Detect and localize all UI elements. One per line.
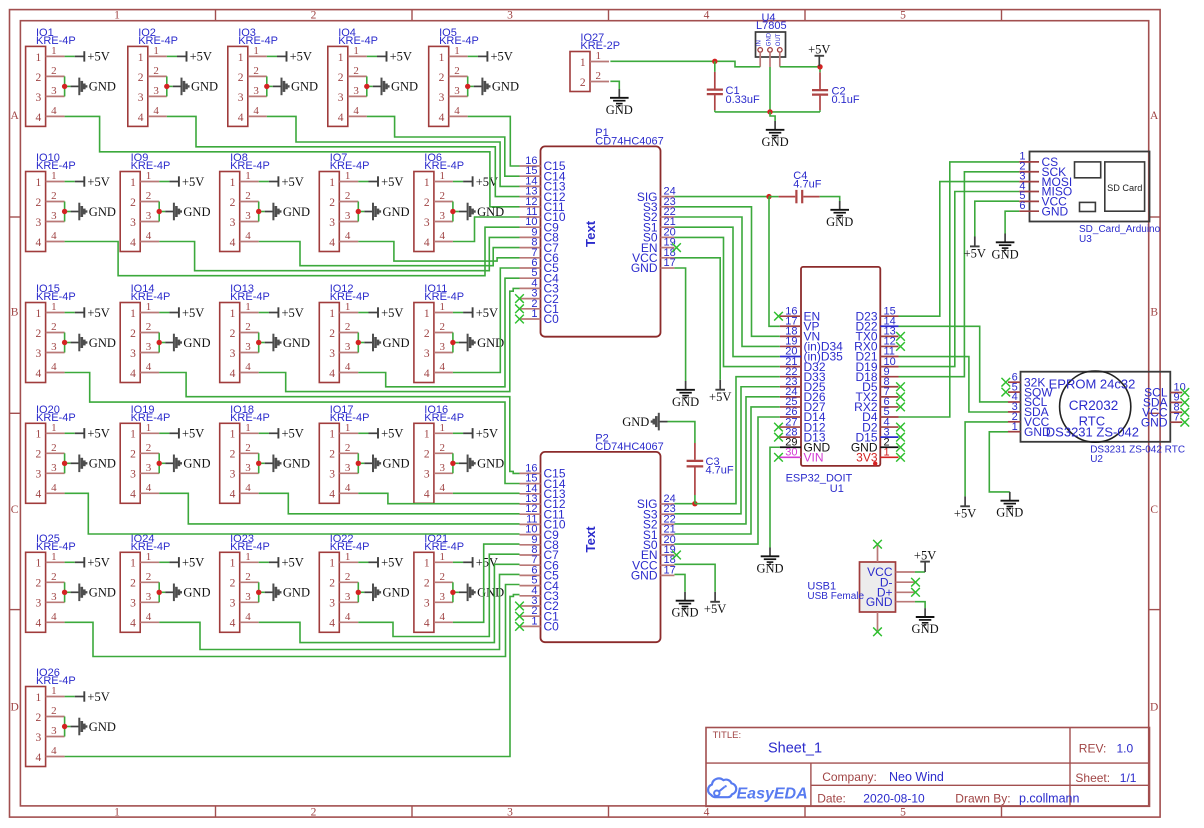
svg-text:4: 4 <box>36 368 42 380</box>
multiplexer P1 CD74HC4067 <box>520 127 676 337</box>
P1 pin 21 S1 <box>661 226 675 228</box>
USB1 shield pin top <box>877 546 879 563</box>
P2 pin 1 C0 <box>520 625 541 627</box>
IO4 pin 3 <box>348 95 367 97</box>
P2 pin 10 C9 <box>520 534 541 536</box>
svg-text:GND: GND <box>912 622 939 636</box>
svg-text:CR2032: CR2032 <box>1069 398 1119 413</box>
svg-text:GND: GND <box>183 586 210 600</box>
svg-text:EasyEDA: EasyEDA <box>737 786 808 803</box>
svg-text:+5V: +5V <box>87 556 109 570</box>
svg-text:17: 17 <box>664 564 676 576</box>
connector IO25 KRE-4P <box>26 533 76 632</box>
svg-text:3: 3 <box>36 732 42 744</box>
svg-text:4: 4 <box>424 237 430 249</box>
wire IO21 pin4 to P2 C8 <box>453 544 520 622</box>
svg-text:2: 2 <box>245 321 251 333</box>
svg-text:TITLE:: TITLE: <box>713 730 742 741</box>
P2 pin 16 C15 <box>520 472 541 474</box>
svg-text:1: 1 <box>245 551 251 563</box>
wire U1 D19 to U3 MISO <box>899 192 1020 367</box>
svg-text:3: 3 <box>338 92 344 104</box>
U1 pin 23 D25 <box>780 386 801 388</box>
P2 pin 20 S0 <box>661 544 675 546</box>
svg-text:+5V: +5V <box>381 427 403 441</box>
svg-text:GND: GND <box>672 395 699 409</box>
IO20 pin 4 <box>46 492 65 494</box>
svg-text:GND: GND <box>631 261 658 275</box>
svg-text:2: 2 <box>36 328 42 340</box>
U1 pin 5 D4 <box>880 416 898 418</box>
svg-text:3: 3 <box>439 341 445 353</box>
svg-text:GND: GND <box>1042 204 1069 218</box>
wire IO27 pin1 to C1/U4 IN <box>610 60 714 62</box>
svg-text:1: 1 <box>238 52 244 64</box>
U1 no-connect X pin 2 <box>896 443 905 452</box>
svg-text:2: 2 <box>329 328 335 340</box>
svg-text:GND: GND <box>383 586 410 600</box>
connector IO12 KRE-4P <box>319 283 369 382</box>
IO17 pin 3 <box>339 472 358 474</box>
wire P1 GND <box>674 268 685 381</box>
svg-text:2: 2 <box>51 705 57 717</box>
svg-text:1: 1 <box>51 551 57 563</box>
IO11 pin 4 <box>434 372 453 374</box>
P2 no-connect X pin 1 <box>515 622 524 631</box>
svg-text:2: 2 <box>345 190 351 202</box>
wire USB GND <box>915 602 925 609</box>
P2 pin 12 C11 <box>520 513 541 515</box>
P1 pin 23 S3 <box>661 206 675 208</box>
IO9 pin 4 <box>140 241 159 243</box>
svg-text:3: 3 <box>329 598 335 610</box>
svg-text:REV:: REV: <box>1079 742 1107 756</box>
connector IO5 KRE-4P <box>429 27 479 126</box>
svg-text:3: 3 <box>36 348 42 360</box>
U1 pin 3 D15 <box>880 436 898 438</box>
connector IO22 KRE-4P <box>319 533 369 632</box>
svg-text:1: 1 <box>36 308 42 320</box>
IO17 +5V flag on pin 1 <box>358 427 403 441</box>
IO13 GND net on pins 2-3 <box>256 333 310 353</box>
svg-text:4: 4 <box>146 611 152 623</box>
svg-text:1: 1 <box>146 422 152 434</box>
IO3 pin 3 <box>248 95 267 97</box>
svg-text:GND: GND <box>283 586 310 600</box>
IO19 +5V flag on pin 1 <box>159 427 204 441</box>
P2 pin 7 C6 <box>520 564 541 566</box>
P1 pin 2 C1 <box>520 308 541 310</box>
IO3 pin 4 <box>248 115 267 117</box>
IO1 GND net on pins 2-3 <box>62 76 116 96</box>
U1 pin 29 GND <box>780 446 801 448</box>
svg-text:B: B <box>11 307 19 319</box>
svg-text:2: 2 <box>439 190 445 202</box>
IO12 +5V flag on pin 1 <box>358 306 403 320</box>
U2 pin 5 SQW <box>1008 391 1021 393</box>
svg-text:4: 4 <box>345 611 351 623</box>
IO2 GND net on pins 2-3 <box>164 76 218 96</box>
IO19 pin 4 <box>140 492 159 494</box>
svg-text:2: 2 <box>230 328 236 340</box>
capacitor C2 0.1uF <box>812 67 860 112</box>
IO19 GND net on pins 2-3 <box>157 453 211 473</box>
svg-text:4: 4 <box>146 361 152 373</box>
svg-text:1: 1 <box>146 301 152 313</box>
IO1 pin 1 <box>46 55 65 57</box>
svg-text:4: 4 <box>704 10 710 22</box>
IO7 GND net on pins 2-3 <box>356 202 410 222</box>
svg-text:B: B <box>1150 307 1158 319</box>
IO25 pin 4 <box>46 621 65 623</box>
svg-text:3: 3 <box>153 85 159 97</box>
svg-text:1: 1 <box>338 52 344 64</box>
capacitor C4 4.7uF <box>769 170 840 204</box>
IO6 pin 3 <box>434 221 453 223</box>
svg-text:6: 6 <box>1019 200 1025 212</box>
IO26 GND net on pins 2-3 <box>62 717 116 737</box>
+5V flag under U3 <box>964 237 986 261</box>
connector IO4 KRE-4P <box>328 27 378 126</box>
IO11 pin 1 <box>434 312 453 314</box>
svg-text:+5V: +5V <box>954 506 976 520</box>
svg-text:4: 4 <box>36 489 42 501</box>
svg-text:2: 2 <box>596 70 602 82</box>
svg-text:+5V: +5V <box>709 390 731 404</box>
svg-text:2: 2 <box>36 712 42 724</box>
svg-text:+5V: +5V <box>381 175 403 189</box>
U1 pin 25 D27 <box>780 406 801 408</box>
P1 pin 8 C7 <box>520 247 541 249</box>
U1 pin 1 3V3 <box>880 456 898 458</box>
svg-text:1: 1 <box>146 551 152 563</box>
svg-text:VIN: VIN <box>804 451 824 465</box>
IO25 pin 1 <box>46 561 65 563</box>
svg-text:4: 4 <box>51 230 57 242</box>
svg-text:2: 2 <box>424 449 430 461</box>
connector IO27 KRE-2P <box>570 32 620 91</box>
svg-text:2: 2 <box>245 442 251 454</box>
IO4 GND net on pins 2-3 <box>364 76 418 96</box>
svg-text:4: 4 <box>51 482 57 494</box>
svg-text:GND: GND <box>183 336 210 350</box>
IO11 +5V flag on pin 1 <box>453 306 498 320</box>
svg-text:GND: GND <box>996 506 1023 520</box>
wire IO11 pin4 to P1 C5 <box>453 268 520 373</box>
U3 pin 3 MOSI <box>1019 181 1039 183</box>
svg-text:2: 2 <box>146 442 152 454</box>
connector IO19 KRE-4P <box>120 404 170 503</box>
svg-text:2: 2 <box>439 442 445 454</box>
wire IO18 pin4 to P2 C11 <box>259 493 520 514</box>
svg-text:3: 3 <box>253 85 259 97</box>
svg-text:GND: GND <box>183 457 210 471</box>
svg-text:1: 1 <box>345 551 351 563</box>
IO8 pin 3 <box>240 221 259 223</box>
connector IO13 KRE-4P <box>220 283 270 382</box>
P2 pin 8 C7 <box>520 554 541 556</box>
P2 pin 24 SIG <box>661 503 675 505</box>
USB1 no-connect X bottom <box>873 627 882 636</box>
IO24 pin 2 <box>140 581 159 583</box>
IO16 pin 2 <box>434 452 453 454</box>
svg-text:2: 2 <box>253 65 259 77</box>
P2 pin 14 C13 <box>520 493 541 495</box>
IO23 GND net on pins 2-3 <box>256 582 310 602</box>
ground at C4 <box>826 201 853 229</box>
+5V flag under U2 <box>954 496 976 520</box>
svg-text:+5V: +5V <box>964 247 986 261</box>
RTC module U2 DS3231 ZS-042 <box>1008 371 1186 465</box>
svg-text:2: 2 <box>51 321 57 333</box>
P1 pin 4 C3 <box>520 287 541 289</box>
IO2 pin 3 <box>148 95 167 97</box>
U1 pin 17 VP <box>780 325 801 327</box>
svg-text:GND: GND <box>826 215 853 229</box>
svg-text:2: 2 <box>345 442 351 454</box>
wire IO27 pin2 to GND <box>610 81 619 89</box>
svg-text:4: 4 <box>245 611 251 623</box>
P1 pin 7 C6 <box>520 257 541 259</box>
P1 pin 20 S0 <box>661 236 675 238</box>
svg-text:GND: GND <box>283 457 310 471</box>
svg-text:4: 4 <box>439 361 445 373</box>
svg-text:4: 4 <box>329 618 335 630</box>
U1 no-connect X pin 7 <box>896 392 905 401</box>
U2 no-connect X pin 5 <box>1001 388 1010 397</box>
svg-text:A: A <box>10 110 19 122</box>
P2 pin 2 C1 <box>520 615 541 617</box>
svg-text:+5V: +5V <box>182 556 204 570</box>
svg-text:4: 4 <box>253 105 259 117</box>
P1 no-connect X pin 3 <box>515 294 524 303</box>
svg-text:GND: GND <box>89 586 116 600</box>
connector IO3 KRE-4P <box>228 27 278 126</box>
svg-text:4: 4 <box>146 482 152 494</box>
svg-text:C: C <box>1150 504 1158 516</box>
wire U1 D18 to U3 SCK <box>899 172 1020 377</box>
svg-text:3: 3 <box>146 341 152 353</box>
svg-text:4: 4 <box>329 237 335 249</box>
svg-text:3: 3 <box>424 469 430 481</box>
svg-text:4: 4 <box>345 482 351 494</box>
IO25 GND net on pins 2-3 <box>62 582 116 602</box>
IO21 +5V flag on pin 1 <box>453 556 498 570</box>
IO5 pin 1 <box>449 55 468 57</box>
wire to GND symbol <box>770 112 775 121</box>
IO8 GND net on pins 2-3 <box>256 202 310 222</box>
wire IO25 pin4 to P2 C4 <box>65 585 520 657</box>
IO11 pin 2 <box>434 332 453 334</box>
svg-text:+5V: +5V <box>381 306 403 320</box>
svg-text:1: 1 <box>596 50 602 62</box>
svg-text:3: 3 <box>329 469 335 481</box>
USB1 shield pin bottom <box>877 612 879 631</box>
P1 pin 9 C8 <box>520 236 541 238</box>
svg-text:1: 1 <box>439 422 445 434</box>
P1 pin 6 C5 <box>520 267 541 269</box>
IO16 +5V flag on pin 1 <box>453 427 498 441</box>
svg-text:2: 2 <box>230 578 236 590</box>
svg-text:1/1: 1/1 <box>1120 771 1137 785</box>
IO20 +5V flag on pin 1 <box>65 427 110 441</box>
multiplexer P2 CD74HC4067 <box>520 432 676 642</box>
U1 no-connect X pin 6 <box>896 403 905 412</box>
wire IO10 pin4 to P1 C9 <box>65 227 520 276</box>
svg-text:3: 3 <box>439 210 445 222</box>
IO15 pin 3 <box>46 352 65 354</box>
U2 pin 6 32K <box>1008 381 1021 383</box>
svg-text:4: 4 <box>51 361 57 373</box>
wire IO4 pin4 to P1 C14 <box>367 116 520 176</box>
IO17 pin 2 <box>339 452 358 454</box>
svg-text:2: 2 <box>338 72 344 84</box>
svg-text:3: 3 <box>36 598 42 610</box>
wire U1 GND29 <box>770 447 780 547</box>
P1 pin 22 S2 <box>661 216 675 218</box>
IO21 pin 1 <box>434 561 453 563</box>
wire IO15 pin4 to P2 C14 <box>65 373 520 484</box>
P2 pin 21 S1 <box>661 534 675 536</box>
svg-text:+5V: +5V <box>87 175 109 189</box>
svg-text:1: 1 <box>230 429 236 441</box>
svg-text:3: 3 <box>146 462 152 474</box>
svg-text:1: 1 <box>114 10 120 22</box>
connector IO6 KRE-4P <box>414 152 464 251</box>
svg-text:2: 2 <box>51 190 57 202</box>
svg-text:L7805: L7805 <box>756 20 787 32</box>
svg-text:1: 1 <box>439 551 445 563</box>
wire IO5 pin4 to P1 C15 <box>468 116 520 166</box>
U1 no-connect X pin 8 <box>896 382 905 391</box>
U1 pin 18 VN <box>780 335 801 337</box>
svg-text:3: 3 <box>507 807 513 819</box>
svg-text:SD Card: SD Card <box>1107 183 1142 193</box>
svg-text:2: 2 <box>424 578 430 590</box>
svg-text:GND: GND <box>383 205 410 219</box>
U1 pin 12 RX0 <box>880 345 898 347</box>
USB1 pin VCC <box>896 571 915 573</box>
wire USB VCC <box>915 571 925 573</box>
svg-text:EPROM 24c32: EPROM 24c32 <box>1049 376 1136 391</box>
IO7 pin 2 <box>339 201 358 203</box>
U1 no-connect X pin 1 <box>896 453 905 462</box>
svg-text:3: 3 <box>36 469 42 481</box>
IO8 +5V flag on pin 1 <box>259 175 304 189</box>
U1 pin 19 (in)D34 <box>780 345 801 347</box>
svg-text:2: 2 <box>130 449 136 461</box>
P2 pin 9 C8 <box>520 544 541 546</box>
svg-text:+5V: +5V <box>282 556 304 570</box>
svg-text:2: 2 <box>146 190 152 202</box>
svg-text:3: 3 <box>51 341 57 353</box>
svg-text:4: 4 <box>146 230 152 242</box>
connector IO2 KRE-4P <box>128 27 178 126</box>
svg-text:2: 2 <box>345 571 351 583</box>
svg-text:3: 3 <box>245 462 251 474</box>
P1 pin 17 GND <box>661 267 675 269</box>
svg-text:4.7uF: 4.7uF <box>706 465 734 477</box>
P1 pin 14 C13 <box>520 185 541 187</box>
wire P2 GND <box>674 574 685 592</box>
ground under P2 <box>671 592 698 620</box>
P1 no-connect X pin 2 <box>515 304 524 313</box>
IO3 GND net on pins 2-3 <box>264 76 318 96</box>
U2 pin 9 SDA <box>1170 401 1182 403</box>
svg-text:4: 4 <box>338 112 344 124</box>
wire P2 VCC to +5V <box>674 564 715 592</box>
wire P2 S0 to U1 D14 <box>674 417 779 544</box>
svg-text:4: 4 <box>345 230 351 242</box>
svg-text:GND: GND <box>477 457 504 471</box>
svg-text:3: 3 <box>138 92 144 104</box>
ground under P1 <box>672 381 699 409</box>
svg-text:2: 2 <box>130 328 136 340</box>
svg-text:Sheet_1: Sheet_1 <box>768 741 822 757</box>
IO6 pin 2 <box>434 201 453 203</box>
+5V flag under P1 <box>709 380 731 404</box>
svg-text:1: 1 <box>424 308 430 320</box>
wire P1 VCC to +5V <box>674 258 720 380</box>
svg-text:1: 1 <box>531 308 537 320</box>
connector IO20 KRE-4P <box>26 404 76 503</box>
svg-text:4: 4 <box>424 618 430 630</box>
wire P1 S1 to U1 D35 <box>674 227 779 356</box>
P1 pin 5 C4 <box>520 277 541 279</box>
IO21 pin 4 <box>434 621 453 623</box>
USB1 pin D+ <box>896 591 915 593</box>
IO21 pin 3 <box>434 601 453 603</box>
IO16 pin 1 <box>434 432 453 434</box>
svg-text:1: 1 <box>439 170 445 182</box>
wire IO1 pin4 to P1 C11 <box>65 116 520 206</box>
svg-text:GND: GND <box>992 247 1019 261</box>
U2 pin 2 VCC <box>1008 421 1021 423</box>
wire IO9 pin4 to P1 C8 <box>159 237 519 270</box>
svg-text:GND: GND <box>89 80 116 94</box>
U1 pin 15 D23 <box>880 315 898 317</box>
svg-text:+5V: +5V <box>390 50 412 64</box>
svg-text:U3: U3 <box>1079 234 1092 245</box>
svg-text:+5V: +5V <box>491 50 513 64</box>
svg-text:+5V: +5V <box>87 50 109 64</box>
connector IO8 KRE-4P <box>220 152 270 251</box>
IO8 pin 2 <box>240 201 259 203</box>
svg-text:2: 2 <box>345 321 351 333</box>
IO13 pin 1 <box>240 312 259 314</box>
svg-text:Drawn By:: Drawn By: <box>955 792 1010 806</box>
svg-text:4: 4 <box>230 618 236 630</box>
wire IO17 pin4 to P2 C12 <box>358 493 519 503</box>
U1 pin 4 D2 <box>880 426 898 428</box>
svg-text:2: 2 <box>36 578 42 590</box>
svg-text:2: 2 <box>146 571 152 583</box>
svg-text:3: 3 <box>36 92 42 104</box>
svg-text:Company:: Company: <box>822 770 877 784</box>
P2 pin 15 C14 <box>520 483 541 485</box>
svg-text:2: 2 <box>439 321 445 333</box>
wire IO23 pin4 to P2 C6 <box>259 564 520 642</box>
svg-text:1: 1 <box>580 57 586 69</box>
svg-text:+5V: +5V <box>704 602 726 616</box>
svg-text:GND: GND <box>756 561 783 575</box>
svg-text:1: 1 <box>253 45 259 57</box>
svg-text:4: 4 <box>153 105 159 117</box>
svg-text:3: 3 <box>230 469 236 481</box>
junction P2 SIG / C3 <box>692 501 697 506</box>
wire junction to U4 IN <box>715 61 760 67</box>
svg-text:0.33uF: 0.33uF <box>726 94 761 106</box>
